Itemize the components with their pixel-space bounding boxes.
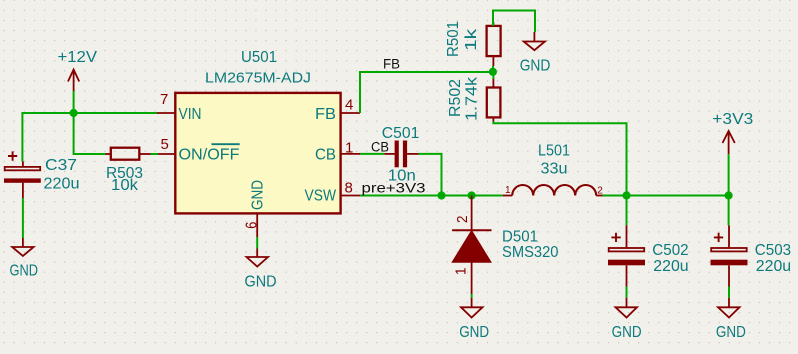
svg-text:GND: GND	[520, 58, 551, 75]
svg-text:GND: GND	[250, 180, 267, 210]
capacitor C37	[4, 151, 80, 198]
svg-text:1: 1	[505, 185, 511, 196]
resistor R503	[106, 148, 151, 194]
capacitor C502	[608, 196, 689, 287]
wire FB net (node FB)	[360, 72, 493, 113]
wire pin6 to ground	[256, 237, 258, 249]
wire R503 to pin 5	[151, 153, 159, 155]
svg-text:7: 7	[160, 91, 168, 108]
wire D501 to ground	[471, 294, 473, 298]
svg-text:CB: CB	[315, 147, 336, 164]
node junction FB divider	[489, 68, 497, 76]
svg-text:R501: R501	[445, 21, 462, 57]
ground R501 top	[524, 32, 545, 50]
wire C37 to ground	[22, 198, 24, 238]
wire R501 bottom to junction	[492, 66, 494, 72]
wire VSW rail (node pre+3V3)	[360, 195, 503, 197]
ground pin 6	[247, 249, 269, 267]
wire C501 to rail	[419, 154, 442, 196]
wire +12V rail to VIN (node VIN)	[22, 112, 157, 162]
svg-text:6: 6	[244, 222, 261, 229]
svg-text:1.74k: 1.74k	[464, 76, 481, 121]
svg-text:4: 4	[345, 96, 353, 113]
svg-text:C502: C502	[652, 242, 688, 259]
power symbol +12V	[68, 70, 79, 92]
svg-text:+12V: +12V	[58, 49, 98, 66]
svg-text:GND: GND	[459, 324, 489, 341]
svg-text:D501: D501	[502, 229, 538, 246]
svg-text:+3V3: +3V3	[712, 111, 753, 128]
svg-text:FB: FB	[383, 56, 400, 71]
svg-text:10k: 10k	[111, 177, 139, 194]
svg-text:220u: 220u	[756, 258, 791, 275]
resistor R501	[445, 21, 501, 66]
svg-text:C501: C501	[382, 125, 420, 142]
svg-text:2: 2	[597, 186, 603, 197]
svg-text:33u: 33u	[541, 161, 568, 178]
svg-text:8: 8	[345, 180, 353, 197]
svg-text:C503: C503	[755, 242, 791, 259]
node junction D501	[468, 191, 476, 199]
inductor L501	[503, 143, 604, 197]
op-amp U501 LM2675M-ADJ body	[175, 93, 340, 213]
wire junction down to R503	[74, 113, 106, 154]
wire CB pin to C501	[360, 153, 384, 155]
pin 6 GND	[256, 213, 258, 237]
node junction C501 drop	[437, 191, 445, 199]
pin 8 VSW	[341, 195, 360, 197]
svg-text:1: 1	[453, 267, 470, 275]
svg-text:GND: GND	[612, 324, 642, 341]
wire +3V3 to rail	[728, 154, 730, 195]
node junction +12V/VIN	[70, 109, 78, 117]
svg-text:VIN: VIN	[179, 106, 202, 123]
svg-text:10n: 10n	[388, 168, 416, 185]
pin 4 FB	[341, 112, 360, 114]
pin 7 VIN	[157, 112, 175, 114]
svg-text:L501: L501	[538, 143, 570, 160]
svg-text:220u: 220u	[653, 258, 688, 275]
capacitor C501	[382, 125, 420, 185]
capacitor C503	[711, 196, 792, 287]
wire C503 to ground	[728, 287, 730, 298]
svg-text:2: 2	[454, 215, 471, 223]
svg-text:GND: GND	[10, 263, 39, 280]
wire L501 to output junction	[603, 195, 729, 197]
power symbol +3V3	[723, 131, 735, 154]
svg-text:VSW: VSW	[305, 188, 337, 205]
svg-text:R502: R502	[447, 79, 464, 117]
wire +12V symbol to junction	[73, 91, 75, 113]
resistor R502	[447, 72, 500, 122]
ground C37	[12, 238, 33, 256]
wire C502 to ground	[626, 287, 628, 298]
svg-text:C37: C37	[45, 157, 77, 174]
svg-text:U501: U501	[241, 49, 277, 66]
svg-text:1: 1	[345, 140, 353, 157]
ground C502	[616, 298, 638, 318]
ground C503	[718, 298, 740, 318]
diode D501	[452, 196, 558, 295]
node junction C502	[622, 191, 630, 199]
svg-text:1k: 1k	[463, 28, 480, 51]
ground D501	[461, 298, 483, 318]
wire R502 bottom to output node	[493, 122, 626, 196]
svg-text:LM2675M-ADJ: LM2675M-ADJ	[205, 70, 311, 87]
svg-text:GND: GND	[245, 274, 277, 291]
pin 5 ON/OFF	[158, 153, 175, 155]
svg-text:ON/OFF: ON/OFF	[179, 147, 240, 164]
svg-text:SMS320: SMS320	[502, 244, 559, 261]
svg-text:5: 5	[161, 136, 169, 153]
svg-text:FB: FB	[315, 106, 336, 123]
svg-text:220u: 220u	[44, 176, 80, 193]
wire R501 top to ground	[493, 11, 535, 33]
pin 1 CB	[341, 153, 360, 155]
node junction +3V3 output	[725, 191, 733, 199]
svg-text:GND: GND	[716, 324, 746, 341]
